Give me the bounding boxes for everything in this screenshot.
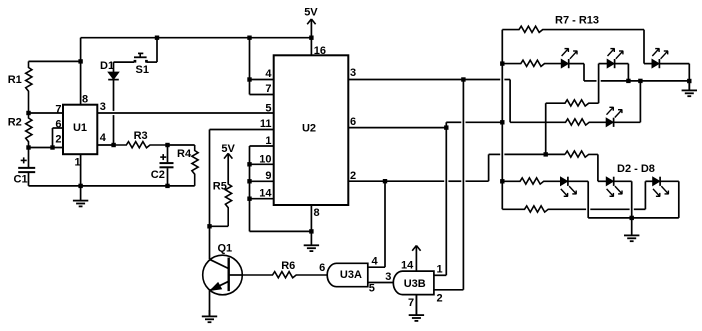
LED D7 — [606, 177, 622, 197]
wire U2 pin9 — [250, 180, 274, 182]
junction C2 ground — [165, 184, 169, 188]
wire D4 down to ground — [688, 64, 690, 91]
junction 5V pin16 — [309, 36, 313, 40]
ground bottom right — [624, 218, 639, 241]
op-amp U1 (555 timer box) — [63, 105, 97, 155]
junction R1/R2/pin7 — [26, 111, 30, 115]
resistor R10 — [510, 119, 606, 125]
svg-text:3: 3 — [350, 67, 356, 79]
svg-text:R3: R3 — [134, 130, 148, 142]
wire D2 cathode — [569, 63, 584, 65]
ground U3B pin7 — [409, 295, 424, 321]
svg-text:R7 - R13: R7 - R13 — [555, 14, 599, 26]
LED D5 — [606, 107, 622, 127]
wire U2 pin3 row — [348, 79, 510, 81]
ground Q1 emitter — [202, 310, 217, 322]
svg-text:3: 3 — [100, 101, 106, 113]
wire D7 anode — [598, 180, 606, 182]
junction pin9 — [247, 179, 251, 183]
ground top right — [682, 81, 697, 96]
diode D1 — [108, 62, 119, 145]
svg-text:8: 8 — [82, 94, 88, 106]
junction D5 riser — [638, 79, 642, 83]
wire pin3 jog down — [509, 80, 511, 123]
svg-text:R6: R6 — [281, 260, 295, 272]
capacitor C1 — [18, 148, 35, 186]
wire U2 pin14 — [250, 198, 274, 200]
svg-text:7: 7 — [265, 83, 271, 95]
svg-text:U3B: U3B — [404, 278, 426, 290]
junction pin8 ground — [309, 229, 313, 233]
IC U2 (counter box) — [274, 55, 349, 205]
svg-text:8: 8 — [314, 207, 320, 219]
junction D3 return — [626, 79, 630, 83]
junction pins4-7 riser — [247, 36, 251, 40]
svg-text:16: 16 — [314, 45, 326, 57]
wire U2 pin4 — [250, 79, 274, 81]
ground U1 — [73, 186, 88, 207]
junction pin14 — [247, 197, 251, 201]
wire U3A pin5 to U3B pin3 — [368, 282, 394, 284]
wire cathode return row bottom — [588, 217, 679, 219]
resistor R5 — [225, 183, 231, 226]
wire vertical pin8 riser — [80, 38, 82, 105]
wire pin4 riser to U2 pin2 net — [384, 181, 386, 267]
wire D3 cathode — [615, 63, 629, 65]
wire U2 pin8 — [310, 205, 312, 231]
svg-text:4: 4 — [372, 256, 379, 268]
wire pin2 riser to U2 pin3 net — [462, 80, 464, 290]
junction pin2/pin4 riser — [383, 179, 387, 183]
wire pin2 jog up — [488, 154, 490, 181]
wire D5 cathode — [614, 121, 641, 123]
junction S1 top — [155, 36, 159, 40]
resistor R8 — [502, 60, 561, 66]
wire D4 anode — [644, 63, 652, 65]
transistor Q1 — [203, 255, 243, 295]
wire pin1 riser to U2 pin6 net — [445, 122, 447, 275]
svg-text:6: 6 — [350, 116, 356, 128]
wire D6 down — [587, 181, 589, 218]
svg-text:C2: C2 — [151, 169, 165, 181]
junction R3/C2/R4 — [165, 143, 169, 147]
wire D8 cathode — [660, 180, 679, 182]
wire R7 down to D4 — [643, 30, 645, 64]
wire U1 pin1 — [80, 154, 82, 186]
junction rail R11 — [500, 179, 504, 183]
resistor R1 — [26, 61, 32, 113]
junction R9/R12 — [544, 152, 548, 156]
wire pins 4-7 riser — [249, 38, 251, 95]
junction pin10 — [247, 162, 251, 166]
junction D1/R3/pin4 — [111, 143, 115, 147]
AND gate U3B (pointing left) — [393, 271, 434, 295]
wire U3B pin1 — [434, 274, 446, 276]
wire U1 pin6 — [53, 127, 64, 129]
wire D7 down — [631, 181, 633, 218]
wire U1 pin2 — [29, 147, 64, 149]
wire R1 top to U1 pin8 net — [29, 60, 81, 62]
junction pin1 ground — [78, 184, 82, 188]
wire Q1 emitter to ground — [209, 290, 211, 316]
wire U2 pin10 — [250, 163, 274, 165]
wire anode rail — [501, 30, 503, 210]
wire D2 down — [583, 64, 585, 81]
resistor R11 — [502, 178, 560, 184]
resistor R6 — [242, 272, 327, 278]
svg-text:7: 7 — [55, 104, 61, 116]
wire R9 to R12 row — [545, 103, 547, 154]
wire D8 down — [678, 181, 680, 218]
svg-text:4: 4 — [265, 68, 272, 80]
svg-text:5: 5 — [265, 102, 271, 114]
junction pin3 riser — [461, 77, 465, 81]
wire ground row — [29, 185, 195, 187]
wire D6 cathode — [568, 180, 588, 182]
svg-text:U2: U2 — [302, 123, 316, 135]
svg-text:C1: C1 — [14, 173, 28, 185]
svg-text:U3A: U3A — [340, 269, 362, 281]
ground U2 pin8 — [304, 231, 319, 251]
wire R13 row right — [590, 208, 645, 210]
wire U2 pin2 row — [348, 180, 488, 182]
wire pin6 jog to rail — [446, 121, 502, 123]
wire R12 down to D7 — [597, 154, 599, 181]
svg-text:6: 6 — [55, 118, 61, 130]
wire U1 pin3 to U2 pin5 — [97, 112, 273, 114]
svg-text:11: 11 — [260, 118, 272, 130]
svg-text:D1: D1 — [100, 60, 114, 72]
wire U3B pin2 — [434, 289, 464, 291]
LED D6 — [561, 177, 577, 197]
svg-text:U1: U1 — [73, 122, 87, 134]
svg-text:5: 5 — [369, 282, 375, 294]
resistor R9 — [546, 100, 599, 106]
wire pin6 loop vertical — [52, 128, 54, 148]
wire to R4 — [168, 144, 195, 146]
svg-text:5V: 5V — [221, 143, 235, 155]
junction rail R8 — [500, 61, 504, 65]
wire D3 anode — [599, 63, 608, 65]
wire U2 pin7 — [250, 94, 274, 96]
svg-text:1: 1 — [437, 264, 443, 276]
wire R5 elbow — [210, 225, 229, 227]
capacitor C2 — [160, 145, 174, 186]
svg-text:2: 2 — [350, 170, 356, 182]
wire top 5V rail — [81, 37, 312, 39]
resistor R7 — [502, 26, 644, 32]
wire U1 pin7 — [29, 112, 64, 114]
svg-text:7: 7 — [408, 297, 414, 309]
5V arrow U3B pin14 — [412, 246, 420, 272]
svg-text:R1: R1 — [8, 74, 22, 86]
5V arrow above U2 — [307, 19, 315, 38]
LED D8 — [653, 177, 669, 197]
resistor R13 — [502, 206, 586, 212]
wire D3 down — [627, 64, 629, 81]
wire R12 row left — [489, 153, 565, 155]
junction R5/collector — [207, 224, 211, 228]
wire U2 pin1 — [250, 145, 274, 147]
junction pin6 riser — [444, 125, 448, 129]
wire U3A pin4 — [368, 266, 385, 268]
wire pin11 to Q1 collector — [209, 130, 211, 260]
svg-text:4: 4 — [100, 132, 107, 144]
switch S1 (pushbutton) — [114, 38, 158, 63]
wire D4 cathode — [659, 63, 689, 65]
wire U2 pin6 row — [348, 127, 446, 129]
svg-text:2: 2 — [55, 133, 61, 145]
svg-text:3: 3 — [385, 271, 391, 283]
resistor R12 — [565, 151, 598, 157]
svg-text:S1: S1 — [136, 64, 149, 76]
junction pin4 riser — [247, 77, 251, 81]
svg-text:Q1: Q1 — [218, 243, 233, 255]
junction pin8/R1 — [78, 59, 82, 63]
svg-text:R5: R5 — [213, 181, 227, 193]
junction R2/C1/pin2 — [26, 145, 30, 149]
svg-text:6: 6 — [319, 262, 325, 274]
wire bracket to pin8 ground — [250, 230, 312, 232]
wire D8 anode — [645, 180, 652, 182]
svg-text:5V: 5V — [304, 7, 318, 19]
junction pin2/pin6 loop — [50, 145, 54, 149]
wire U2 pin16 — [310, 38, 312, 56]
svg-text:9: 9 — [265, 170, 271, 182]
junction rail R10 row — [500, 120, 504, 124]
wire D7 cathode — [614, 180, 632, 182]
resistor R2 — [26, 113, 32, 148]
LED D4 — [652, 48, 668, 68]
5V arrow R5 — [224, 153, 232, 183]
svg-text:R4: R4 — [177, 148, 192, 160]
wire pins 1-10-9-14 bracket — [249, 146, 251, 231]
svg-text:1: 1 — [75, 157, 81, 169]
wire D5 riser — [639, 81, 641, 122]
svg-text:D2 - D8: D2 - D8 — [617, 163, 655, 175]
junction ground bottom — [630, 216, 634, 220]
wire U2 pin11 — [210, 129, 274, 131]
resistor R3 — [114, 142, 168, 148]
svg-text:14: 14 — [401, 260, 414, 272]
junction ground top right — [687, 79, 691, 83]
LED D3 — [607, 48, 623, 68]
resistor R4 — [192, 145, 198, 186]
wire D8 anode riser — [644, 181, 646, 209]
wire cathode return row top — [584, 80, 689, 82]
wire U1 pin4 — [97, 144, 113, 146]
wire D3 anode to R9 — [598, 64, 600, 104]
AND gate U3A (pointing left) — [327, 263, 368, 286]
LED D2 — [561, 48, 577, 68]
svg-text:R2: R2 — [8, 117, 22, 129]
wire U3B pin7 — [415, 295, 417, 316]
svg-text:2: 2 — [437, 293, 443, 305]
